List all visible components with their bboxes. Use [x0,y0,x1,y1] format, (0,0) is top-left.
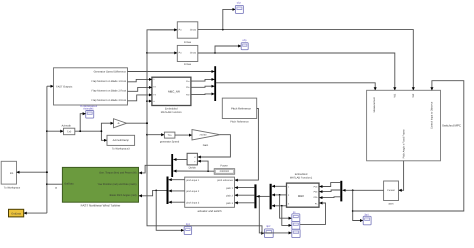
wire gain to main vertical [127,122,148,124]
label purple under FAST Outputs [80,105,98,111]
block 1/max lower [177,45,198,66]
wire feedback loop to MPC control input [353,81,464,211]
svg-text:pitch 3: pitch 3 [226,202,234,205]
wire mux to demux [257,196,270,198]
wire demux to actuator pitch 2 [235,194,255,196]
scope 3p2 (fed by main vertical) [265,225,274,238]
label Embedded MATLAB Function [161,107,182,114]
svg-text:3p1: 3p1 [186,223,191,226]
wire MPC output to asm [399,161,404,191]
svg-text:#: # [55,186,57,190]
wire demux to MBC in P1b [319,183,340,187]
wire branch to scope 3p1 [156,190,184,230]
wire flap1 to MBC_NR [128,79,152,81]
svg-text:MBC: MBC [298,194,304,198]
wire mux output to MPC measurement [216,83,375,91]
block 1/max upper [177,22,198,44]
block OutData (To Workspace yellow) [9,209,24,217]
svg-text:Blade Pitch Angles (rad): Blade Pitch Angles (rad) [110,194,137,197]
scope u2p [241,39,248,50]
wire demux to actuator pitch 3 [235,202,255,204]
wire into MBC_NR input 4 [147,100,152,102]
label Embedded MATLAB Function1 [290,173,313,180]
svg-text:Switched MPC: Switched MPC [442,124,461,128]
svg-text:1/max: 1/max [190,29,197,32]
svg-text:Pitch Reference: Pitch Reference [230,120,249,123]
gain -K- triangle [114,119,127,128]
block asm (flipped) [384,181,399,206]
wire branch to scope u1p [223,9,236,29]
wire into To Workspace [17,171,48,173]
wire branch to scope p3 [259,196,291,233]
svg-text:To Workspace3: To Workspace3 [112,148,130,151]
block Power display [214,164,235,174]
wire pitch mux to green FAST input 3 [139,190,167,196]
wire divide output to torque mux [173,159,187,161]
svg-text:MBC_NR: MBC_NR [168,89,180,93]
scope 3p1 [184,223,191,234]
svg-text:In1: In1 [10,172,14,175]
svg-text:1/max: 1/max [184,41,192,44]
svg-text:Pitch Angle s Fixed Frame: Pitch Angle s Fixed Frame [403,129,406,159]
wire power constant to divide and torque mux [173,161,214,172]
svg-text:asm: asm [389,203,394,206]
block Pitch Reference [222,98,256,123]
mux MBC outputs bar [270,184,272,210]
wire main vertical distribution line [146,30,264,233]
svg-text:Pitch Reference: Pitch Reference [231,106,251,110]
svg-text:OutData: OutData [64,183,74,186]
svg-text:pitch 2: pitch 2 [226,195,234,198]
wire gain output to divide [198,135,231,157]
wire into Tzo [147,134,164,136]
scope 3p4 [363,214,371,225]
svg-text:pitch input 2: pitch input 2 [186,190,200,193]
svg-text:u2p: u2p [242,39,247,42]
wire into 1/max upper [150,29,177,31]
block FAST Outputs (bus selector) [54,68,128,105]
svg-text:Control Input to Observe: Control Input to Observe [430,101,433,129]
wire flap2 to MBC_NR [128,87,152,91]
wire demux to MBC in P3b [319,196,340,199]
mux torque-power bar [171,154,173,177]
svg-text:W1: W1 [393,93,396,97]
scope p1 [292,211,300,222]
block Tzo generator speed [160,132,180,144]
wire green FAST output to bus [47,183,63,185]
wire demux to MBC in P2b [319,190,340,192]
wire memory feedback to MBC in Ps [300,203,325,224]
wire F2e to mux [191,86,215,87]
svg-text:OutData: OutData [11,212,21,215]
svg-text:Flap Moment on Blade 3 Root: Flap Moment on Blade 3 Root [92,99,127,102]
svg-text:MATLAB Function: MATLAB Function [161,111,182,114]
block AzimuthRamp [107,135,135,150]
wire branch to scope p1 [280,195,292,218]
block FAST Nonlinear Wind Turbine (green) [62,167,138,207]
wire azimuth to Tz0 [47,130,63,132]
wire MBC out1 to mux [272,185,287,187]
wire torque mux to green FAST input 1 [139,165,171,173]
demux switched bar [340,181,342,202]
svg-text:Ps: Ps [315,202,317,205]
wire pitch input 3 to pitch mux [169,201,185,203]
scope u1p [235,1,243,13]
scope p2 [292,222,300,230]
wire OutData bus vertical [46,86,48,213]
mux pitch bar [167,177,169,205]
svg-text:FAST Nonlinear Wind Turbine: FAST Nonlinear Wind Turbine [81,204,121,208]
svg-text:3p2: 3p2 [266,225,271,228]
wire MBC out3 to mux with scope branch [272,205,287,207]
wire into OutData [24,212,47,214]
svg-text:MATLAB Function1: MATLAB Function1 [290,177,313,180]
wire Tzo to gain 2*pi/60 [175,134,192,136]
svg-text:pitch input 1: pitch input 1 [186,179,200,182]
svg-text:Yaw Position (rad) and Rate (r: Yaw Position (rad) and Rate (rad/s) [98,183,137,186]
block To Workspace (In1) [1,161,21,189]
svg-text:2*pi/60: 2*pi/60 [200,133,208,136]
svg-text:Azimuth1: Azimuth1 [83,107,94,110]
wire pitch input 2 to pitch mux [169,190,185,192]
svg-text:pitch input 3: pitch input 3 [186,201,200,204]
svg-text:-K-: -K- [117,122,120,125]
svg-text:Generator Speed Difference: Generator Speed Difference [94,70,127,73]
svg-text:Azimuth: Azimuth [62,124,72,127]
svg-text:FAST Outputs: FAST Outputs [56,85,73,88]
svg-text:1/max: 1/max [190,52,197,55]
svg-text:pitch 1: pitch 1 [226,187,234,190]
svg-text:Gain: Gain [203,144,209,147]
wire branch to scope u2p [215,46,241,53]
block actuator and switch [185,177,235,213]
svg-text:Flap Moment on Blade 2 Root: Flap Moment on Blade 2 Root [92,90,127,93]
block Switched MPC [367,90,441,161]
wire demux to actuator pitch 1 [235,187,255,189]
svg-text:Flap Moment on Blade 1 Root: Flap Moment on Blade 1 Root [92,80,127,83]
wire into 1/max lower [147,52,177,54]
svg-text:actuator and switch: actuator and switch [197,209,222,213]
svg-text:Divide: Divide [189,167,197,170]
block Divide (flipped) [187,153,197,169]
svg-text:generator Speed: generator Speed [160,141,180,144]
svg-text:Measurement: Measurement [373,97,376,113]
svg-text:W2: W2 [412,93,415,97]
wire 1/max upper output to MPC [198,29,413,91]
wire MBC out2 to mux with scope branch [272,194,287,196]
block MBC embedded matlab function1 (flipped) [287,183,320,207]
gain 2*pi/60 triangle [192,130,220,147]
wire pitch input 1 to pitch mux [169,179,185,181]
mux measurement bar [214,66,216,101]
svg-text:pitch reference: pitch reference [217,179,233,182]
wire asm output to demux and feedback loop [343,189,384,220]
svg-text:Gen. Torque (Nm) and Power (W): Gen. Torque (Nm) and Power (W) [99,172,136,175]
wire Tz0 output with branches [75,114,114,141]
svg-text:0000000: 0000000 [220,170,230,173]
scope Azimuth [86,111,94,119]
scope p3 [292,229,300,237]
wire into FAST Outputs [47,85,54,87]
svg-text:To Workspace: To Workspace [4,187,21,190]
svg-text:AzimuthRamp: AzimuthRamp [113,139,130,142]
svg-text:Tz0: Tz0 [67,130,72,133]
block Tz0 [62,124,75,134]
svg-text:u1p: u1p [237,1,242,4]
wire F3e to mux [191,93,215,96]
wire branch to scope p2 [282,206,292,226]
wire generator speed difference to mux [128,71,215,73]
wire Pitch Reference to actuator [235,109,259,181]
svg-text:1/max: 1/max [184,63,192,66]
block MBC_NR embedded matlab function [152,77,191,105]
svg-text:Power: Power [220,164,227,167]
wire 1/max lower output to MPC [198,52,395,90]
wire F1e to mux [191,79,215,81]
demux pitch commands bar [254,184,256,208]
svg-text:Current: Current [387,189,395,192]
wire flap3 to MBC_NR [128,95,152,101]
